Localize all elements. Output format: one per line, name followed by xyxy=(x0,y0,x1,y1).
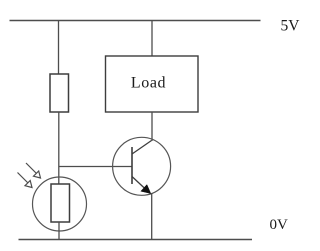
light arrow 1 xyxy=(26,163,41,178)
svg-text:0V: 0V xyxy=(270,217,289,233)
wire: base wire (divider junction to transistor base) xyxy=(59,166,133,168)
transistor Q1 xyxy=(113,137,171,195)
wire: emitter to 0V rail xyxy=(151,193,153,240)
load RL xyxy=(106,56,199,112)
svg-text:5V: 5V xyxy=(281,18,301,35)
light arrow 2 xyxy=(18,173,33,188)
svg-text:Load: Load xyxy=(131,75,166,92)
wire: 5V rail to Load top xyxy=(151,21,153,57)
wire: LDR bottom to 0V rail xyxy=(58,222,60,240)
wire: 5V rail to resistor top xyxy=(58,21,60,75)
resistor R1 xyxy=(50,74,69,112)
wire: resistor bottom to LDR xyxy=(58,112,60,184)
0V rail xyxy=(19,239,253,241)
photoresistor LDR1 xyxy=(33,177,87,231)
5V rail xyxy=(10,20,261,22)
wire: Load bottom to collector xyxy=(151,112,153,141)
